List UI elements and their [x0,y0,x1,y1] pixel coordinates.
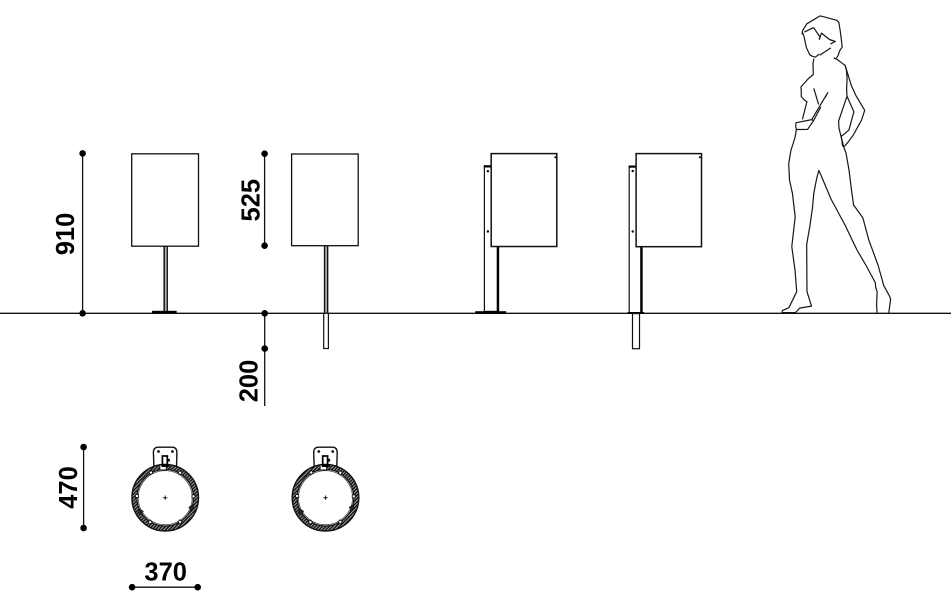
bin 4 buried post [633,314,640,349]
figure neck front and torso front with breast [801,59,814,120]
bin 3 post top edge thick [484,165,499,167]
svg-text:910: 910 [52,213,80,256]
svg-text:370: 370 [144,559,187,587]
bin 1 pole [163,246,165,311]
top view bin A [132,447,199,531]
figure jaw [820,48,831,55]
bin 4 post right edge thick [640,247,642,313]
dimension 910 line [82,153,84,313]
figure crotch and right leg inner [819,170,877,312]
bin 3 lid pin [554,156,556,158]
figure hair outline [802,16,842,58]
bin 2 pole [324,246,326,313]
figure face [804,35,820,58]
bin 3 screw mid [487,230,489,232]
svg-text:200: 200 [235,360,263,403]
bin 3 body [491,154,557,247]
bin 3 post [484,166,498,312]
ground line [0,312,951,314]
figure left forearm line [812,93,828,120]
bin 4 lid pin [699,156,701,158]
figure armpit line [814,88,819,104]
bin 3 base plate [475,311,506,314]
bin 2 buried pole [324,313,329,348]
top view bin B [292,447,359,531]
figure fringe [804,28,835,44]
bin 4 screw mid [632,230,634,232]
figure neck back shoulder spine buttock right leg outer [834,58,891,313]
bin 4 post [629,166,642,313]
dimension 470 line [83,447,85,528]
figure hair left hook [802,31,803,34]
human scale figure [782,16,891,313]
bin 2 body [292,154,359,246]
figure left forearm lower edge [814,107,821,121]
bin 4 ground flange [628,312,644,314]
figure right hand curl [841,136,843,147]
figure front hip and left leg outer [782,130,819,313]
svg-text:470: 470 [55,466,83,509]
bin 3 post right edge thick [497,247,499,312]
bin 1 body [132,154,199,246]
bin 4 post top edge thick [629,166,643,168]
figure right arm outer [844,66,864,147]
svg-text:525: 525 [237,179,265,222]
bin 1 base plate [152,311,177,314]
bin 3 screw top [487,170,489,172]
dimension 200 line [264,313,266,406]
bin 4 screw top [632,170,634,172]
dimension 525 line [264,154,266,246]
figure left hand on hip [796,120,814,130]
bin 4 body [636,154,701,247]
dimension 370 line [132,586,198,588]
figure right arm elbow [841,96,854,136]
